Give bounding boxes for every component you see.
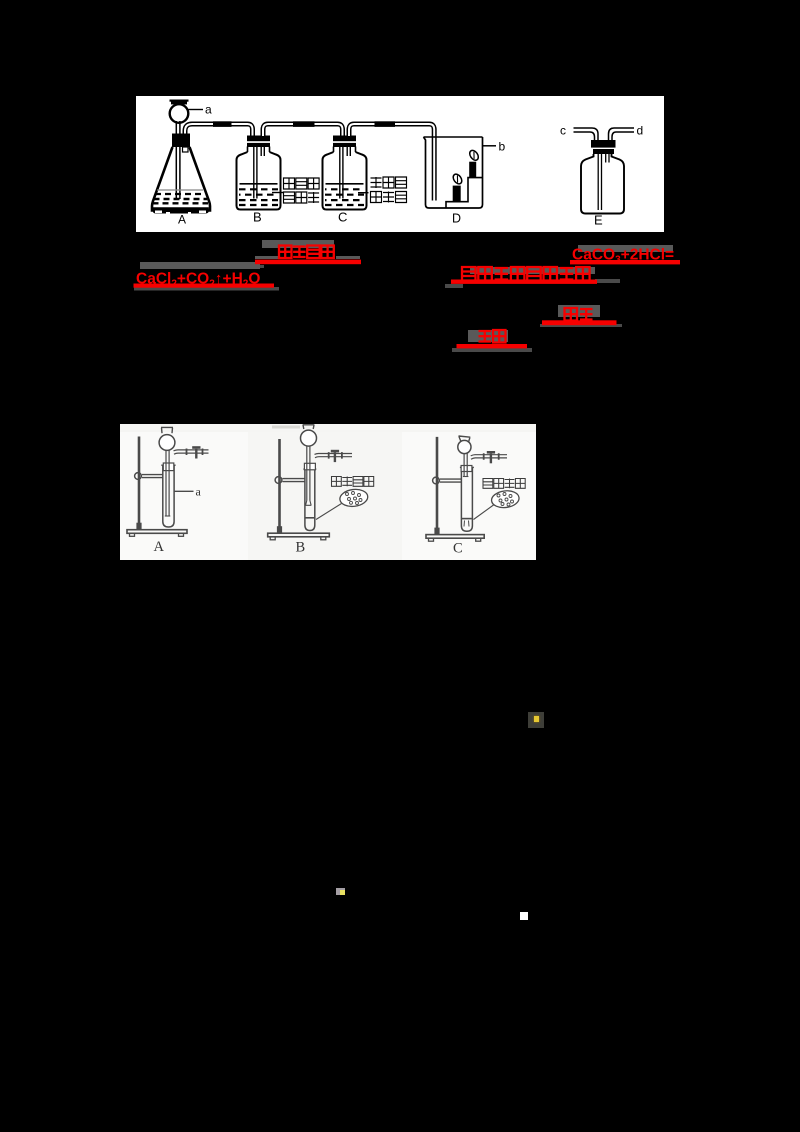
- short tube in E: [606, 154, 609, 163]
- answer blank 1: turns turbid: [279, 246, 292, 259]
- svg-text:a: a: [205, 103, 212, 117]
- funnel stem B (long, flare at bottom): [307, 446, 310, 501]
- pointer oval to plate B: [316, 504, 342, 520]
- stand rod A: [138, 437, 141, 530]
- flame low: [451, 173, 463, 186]
- long tube in E: [598, 154, 601, 210]
- inlet tube C (long, into liquid): [340, 147, 343, 199]
- stand base C: [426, 535, 484, 539]
- gas bottle C body: [323, 152, 367, 210]
- tube B to C: [263, 124, 343, 136]
- stopper A: [163, 463, 174, 471]
- svg-text:C: C: [453, 541, 463, 557]
- porous plate label B (4 chars): [332, 477, 342, 487]
- liquid in C: [326, 183, 364, 185]
- stopper E: [591, 140, 616, 148]
- faint watermark: [272, 426, 300, 429]
- thistle funnel cap a: [170, 100, 189, 102]
- test tube C: [461, 468, 472, 532]
- funnel bulb C: [458, 440, 471, 453]
- text block: clear limewater (3+3 chars): [284, 178, 295, 189]
- test tube B: [305, 469, 315, 530]
- liquid in B: [240, 183, 278, 185]
- funnel bulb: [170, 104, 189, 123]
- inlet tube B (long, into liquid): [254, 147, 257, 199]
- stopper C: [461, 466, 472, 472]
- flask A base band: [153, 207, 209, 213]
- clamp arm B: [283, 479, 306, 482]
- tube C to beaker D: [349, 124, 434, 201]
- clamp arm C: [440, 479, 462, 482]
- white square: [520, 912, 528, 920]
- clamp C: [433, 477, 440, 484]
- clamp A: [135, 473, 142, 480]
- svg-text:a: a: [196, 485, 202, 499]
- rubber connector 1: [213, 121, 232, 127]
- gas bottle B body: [237, 152, 281, 210]
- clamp B: [275, 477, 282, 484]
- side tube + stopcock C: [471, 455, 507, 460]
- pointer line litmus: [358, 192, 369, 194]
- outlet tube B (short): [261, 147, 264, 156]
- stopper B: [304, 463, 315, 470]
- svg-text:E: E: [594, 213, 603, 228]
- funnel stem C (short): [464, 454, 467, 477]
- rubber connector 3: [375, 121, 396, 127]
- text block: purple litmus (3+3 chars): [371, 177, 382, 188]
- magnifier oval C: [491, 489, 520, 509]
- svg-text:C: C: [338, 210, 347, 225]
- funnel bulb B: [301, 430, 317, 446]
- porous plate C: [462, 518, 472, 520]
- stopper B: [247, 136, 270, 148]
- steps inside D: [446, 178, 483, 208]
- stopper C: [333, 136, 356, 148]
- svg-text:A: A: [154, 539, 165, 555]
- candle high: [469, 162, 476, 178]
- svg-text:b: b: [499, 140, 506, 154]
- svg-text:d: d: [637, 124, 644, 138]
- svg-text:D: D: [452, 212, 461, 226]
- side tube + stopcock B: [315, 454, 353, 458]
- svg-text:A: A: [178, 213, 186, 227]
- answer blank 4: litmus turns red (8 chars): [462, 267, 476, 281]
- answer blank 5: [565, 308, 578, 321]
- outlet tube C (short): [347, 147, 350, 156]
- label b pointer: [483, 145, 497, 147]
- candle low: [453, 186, 461, 202]
- stand base B: [268, 533, 330, 537]
- answer blank 6: [479, 330, 492, 343]
- magnifier oval B: [339, 488, 369, 508]
- label a pointer A: [175, 490, 194, 492]
- porous plate B: [306, 517, 315, 519]
- funnel stem: [176, 121, 180, 199]
- svg-text:B: B: [253, 210, 262, 225]
- svg-text:c: c: [560, 124, 566, 138]
- svg-text:B: B: [296, 540, 306, 556]
- pointer oval to plate C: [474, 505, 494, 520]
- rubber stopper A: [172, 134, 190, 148]
- funnel stem A: [166, 450, 169, 516]
- liquid in A: [157, 189, 203, 191]
- stand base A: [127, 530, 187, 534]
- rubber connector 2: [293, 121, 315, 127]
- yellow spark icon: [528, 712, 544, 728]
- bottle E body: [581, 154, 624, 214]
- pointer line limewater: [272, 192, 283, 194]
- clamp arm A: [142, 475, 164, 478]
- beaker D: [424, 137, 483, 208]
- gray jpeg artifacts: [262, 240, 334, 248]
- label a pointer: [189, 109, 204, 111]
- funnel bulb A: [159, 435, 175, 451]
- gray/yellow icon: [336, 888, 345, 896]
- stand rod B: [278, 439, 281, 533]
- delivery tube A to B: [185, 124, 253, 138]
- test tube A: [163, 466, 174, 528]
- stand rod C: [436, 437, 439, 535]
- porous plate label C (4 chars): [483, 479, 493, 489]
- flame high: [468, 149, 480, 162]
- flask A cone: [152, 147, 210, 211]
- side tube + stopcock A: [174, 450, 209, 454]
